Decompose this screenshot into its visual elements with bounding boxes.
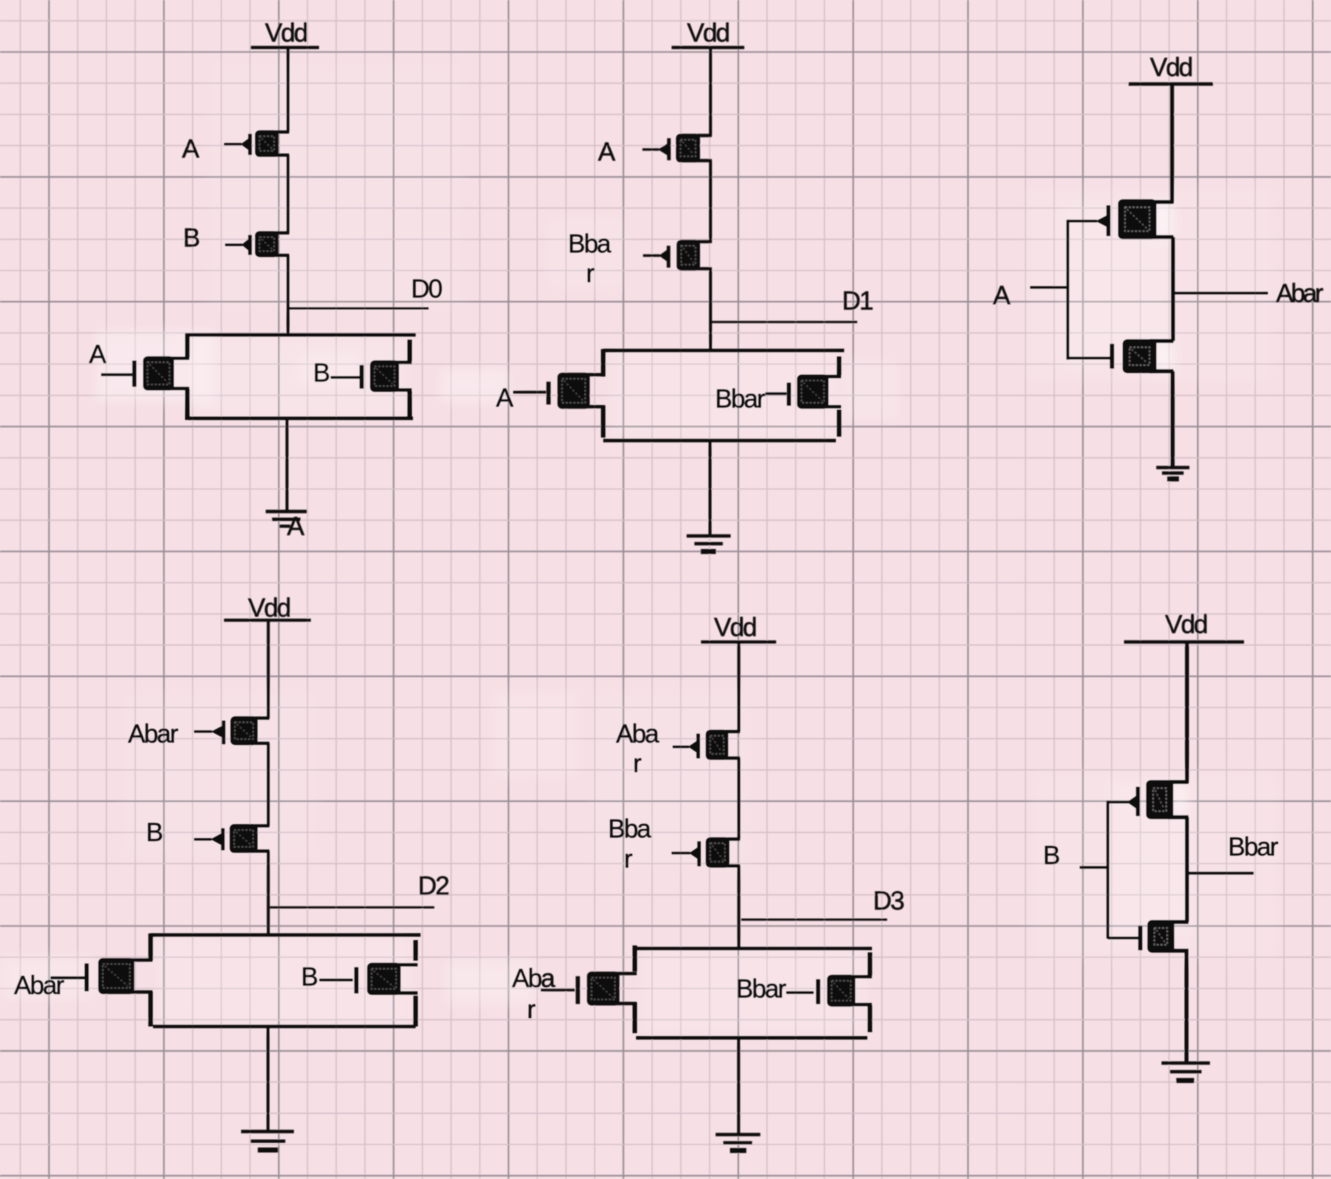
node label Bbar (wrapped) on P2 gate (circuit 2) — [568, 229, 612, 288]
svg-text:Abar: Abar — [14, 970, 65, 1000]
transistor P1 PMOS gate A (circuit 1) — [224, 130, 289, 157]
svg-text:Bbar: Bbar — [736, 974, 787, 1004]
wire NMOS box to ground (circuit 1) — [286, 418, 289, 512]
wire gate bus vertical (circuit 6) — [1106, 801, 1109, 939]
wire P1 drain to P2 source (circuit 2) — [709, 161, 712, 243]
node label Abar (wrapped) on P1 gate (circuit 5) — [616, 719, 660, 778]
nmos pair box bottom rail (circuit 5) — [636, 1036, 867, 1040]
wire NMOS box to ground (circuit 4) — [267, 1027, 270, 1131]
nmos pair box top rail (circuit 5) — [636, 947, 872, 951]
transistor N2 NMOS gate Bbar (circuit 5) — [786, 975, 872, 1007]
net D2 output stub (circuit 4) — [270, 906, 435, 908]
svg-text:A: A — [287, 511, 305, 541]
transistor N2 NMOS gate Bbar (circuit 2) — [765, 375, 841, 409]
wire Vdd bar to P1 source (circuit 5) — [737, 642, 740, 732]
wire P2 drain to node D1 and NMOS box (circuit 2) — [709, 269, 712, 353]
nmos pair box bottom rail (circuit 4) — [153, 1025, 416, 1029]
svg-text:D0: D0 — [411, 274, 442, 304]
svg-text:B: B — [1043, 840, 1059, 870]
nmos pair box right edge segments (circuit 4) — [413, 940, 418, 1027]
transistor N1 NMOS gate A (circuit 1) — [101, 356, 189, 390]
nmos pair box bottom rail (circuit 2) — [603, 439, 836, 443]
power Vdd rail bar (circuit 5) — [701, 640, 776, 643]
wire input B to gate bus (circuit 6) — [1080, 866, 1108, 869]
nmos pair box top rail (circuit 2) — [603, 349, 844, 353]
svg-text:A: A — [182, 134, 200, 164]
wire NMOS drain to ground (circuit 6) — [1185, 951, 1189, 1064]
svg-text:Bba: Bba — [608, 813, 652, 843]
svg-text:B: B — [313, 357, 329, 387]
svg-text:B: B — [183, 222, 199, 252]
node label Bbar (wrapped) on P2 gate (circuit 5) — [608, 813, 652, 873]
power Vdd rail bar (circuit 1) — [251, 46, 319, 49]
transistor N1 NMOS (circuit 3 inverter) — [1068, 339, 1174, 373]
transistor P1 PMOS (circuit 3 inverter) — [1068, 199, 1174, 239]
wire P2 drain to node D3 and NMOS box (circuit 5) — [737, 866, 740, 950]
nmos pair box left edge segments (circuit 4) — [148, 933, 153, 1026]
svg-text:D1: D1 — [842, 285, 873, 315]
transistor N1 NMOS (circuit 6 inverter) — [1108, 920, 1189, 953]
transistor P2 PMOS gate Bbar (circuit 5) — [672, 837, 741, 867]
net D3 output stub (circuit 5) — [741, 918, 887, 920]
wire input A to gate bus (circuit 3) — [1030, 286, 1068, 289]
svg-text:Abar: Abar — [1276, 278, 1324, 308]
transistor N1 NMOS gate Abar (circuit 4) — [51, 958, 153, 994]
nmos pair box right edge segments (circuit 5) — [868, 952, 873, 1032]
transistor P1 PMOS (circuit 6 inverter) — [1108, 780, 1189, 819]
wire NMOS box to ground (circuit 5) — [737, 1038, 740, 1135]
ground symbol (circuit 1) — [266, 512, 307, 527]
svg-text:Bbar: Bbar — [715, 384, 766, 414]
transistor N2 NMOS gate B (circuit 1) — [331, 360, 412, 392]
ground symbol (circuit 3) — [1156, 468, 1189, 479]
nmos pair box left edge segments (circuit 5) — [632, 945, 637, 1033]
power Vdd rail bar (circuit 3 inverter) — [1129, 82, 1213, 85]
svg-text:Vdd: Vdd — [1150, 52, 1192, 82]
wire Vdd bar to P1 source (circuit 2) — [709, 48, 712, 136]
net Bbar output stub (circuit 6) — [1188, 872, 1253, 875]
ground symbol (circuit 5) — [716, 1135, 761, 1151]
svg-text:D3: D3 — [873, 886, 904, 916]
svg-text:Bbar: Bbar — [1228, 832, 1279, 862]
svg-text:D2: D2 — [418, 871, 449, 901]
transistor P1 PMOS gate A (circuit 2) — [642, 134, 711, 163]
wire NMOS drain to ground (circuit 3) — [1171, 371, 1175, 468]
nmos pair box top rail (circuit 1) — [187, 333, 415, 337]
transistor P2 PMOS gate B (circuit 4) — [194, 824, 270, 853]
wire gate bus vertical (circuit 3) — [1066, 220, 1069, 360]
svg-text:Vdd: Vdd — [714, 612, 756, 642]
wire P2 drain to node D2 and NMOS box (circuit 4) — [267, 851, 270, 936]
ground symbol (circuit 2) — [687, 536, 731, 552]
svg-text:Vdd: Vdd — [1165, 609, 1207, 639]
svg-text:Aba: Aba — [512, 963, 556, 993]
wire PMOS drain to output node to NMOS source (circuit 6) — [1185, 817, 1189, 922]
power Vdd rail bar (circuit 6 inverter) — [1124, 640, 1244, 643]
wire P1 drain to P2 source (circuit 5) — [737, 758, 740, 839]
svg-text:B: B — [301, 962, 317, 992]
svg-text:Abar: Abar — [128, 719, 179, 749]
power Vdd rail bar (circuit 4) — [224, 619, 311, 622]
svg-text:A: A — [993, 280, 1011, 310]
svg-text:Aba: Aba — [616, 719, 660, 749]
nmos pair box right edge segments (circuit 2) — [837, 356, 842, 436]
node label Abar (wrapped) on N1 gate (circuit 5) — [512, 963, 556, 1024]
nmos pair box top rail (circuit 4) — [151, 933, 421, 937]
nmos pair box left edge segments (circuit 1) — [185, 333, 190, 420]
transistor P2 PMOS gate B (circuit 1) — [225, 231, 289, 257]
nmos pair box right edge segments (circuit 1) — [407, 340, 412, 420]
svg-text:A: A — [496, 383, 514, 413]
ground symbol (circuit 6) — [1162, 1063, 1210, 1080]
transistor P1 PMOS gate Abar (circuit 4) — [194, 716, 270, 745]
net D0 output stub (circuit 1) — [289, 307, 429, 309]
wire Vdd bar to PMOS source (circuit 3) — [1170, 84, 1174, 203]
transistor P1 PMOS gate Abar (circuit 5) — [673, 730, 740, 760]
net Abar output stub (circuit 3) — [1175, 292, 1268, 295]
svg-text:Vdd: Vdd — [687, 18, 729, 48]
svg-text:A: A — [89, 339, 107, 369]
transistor N2 NMOS gate B (circuit 4) — [319, 963, 417, 995]
nmos pair box bottom rail (circuit 1) — [188, 416, 413, 420]
net D1 output stub (circuit 2) — [711, 321, 858, 323]
wire Vdd bar to P1 source (circuit 4) — [267, 620, 270, 718]
ground symbol (circuit 4) — [241, 1132, 294, 1151]
svg-text:Vdd: Vdd — [248, 592, 290, 622]
wire P1 drain to P2 source (circuit 1) — [287, 155, 290, 234]
wire NMOS box to ground (circuit 2) — [709, 441, 712, 537]
svg-text:Vdd: Vdd — [265, 18, 307, 48]
wire P1 drain to P2 source (circuit 4) — [267, 743, 270, 826]
wire P2 drain to node D0 and NMOS box (circuit 1) — [287, 255, 290, 336]
svg-text:Bba: Bba — [568, 229, 612, 259]
transistor N1 NMOS gate A (circuit 2) — [513, 373, 605, 409]
wire PMOS drain to output node to NMOS source (circuit 3) — [1171, 237, 1175, 341]
transistor N1 NMOS gate Abar (circuit 5) — [541, 972, 637, 1006]
transistor P2 PMOS gate Bbar (circuit 2) — [643, 240, 712, 271]
nmos pair box left edge segments (circuit 2) — [601, 349, 606, 438]
svg-text:B: B — [146, 817, 162, 847]
wire Vdd bar to P1 source (circuit 1) — [287, 48, 290, 133]
power Vdd rail bar (circuit 2) — [672, 46, 745, 49]
wire Vdd bar to PMOS source (circuit 6) — [1185, 642, 1189, 783]
svg-text:A: A — [598, 137, 616, 167]
